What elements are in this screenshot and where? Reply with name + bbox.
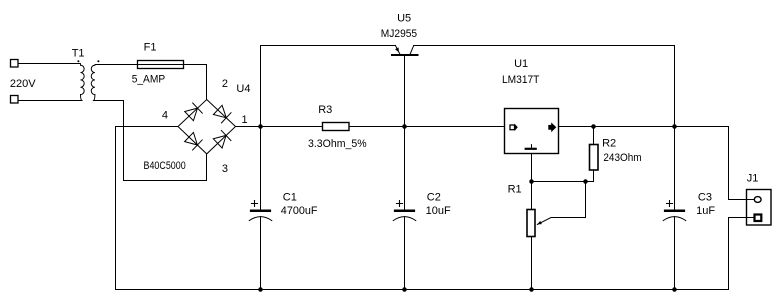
svg-text:T1: T1 (72, 48, 85, 60)
svg-text:F1: F1 (144, 42, 157, 54)
svg-text:1: 1 (242, 114, 248, 126)
svg-text:C1: C1 (283, 192, 297, 204)
svg-text:U4: U4 (236, 83, 250, 95)
svg-text:220V: 220V (10, 78, 36, 90)
svg-text:4700uF: 4700uF (281, 205, 318, 217)
svg-text:4: 4 (162, 110, 168, 122)
svg-text:U1: U1 (514, 58, 528, 70)
svg-text:LM317T: LM317T (502, 74, 540, 86)
svg-text:1uF: 1uF (696, 205, 715, 217)
svg-text:243Ohm: 243Ohm (603, 152, 641, 164)
svg-text:R3: R3 (318, 104, 332, 116)
svg-text:MJ2955: MJ2955 (381, 28, 417, 40)
svg-text:R1: R1 (508, 184, 522, 196)
svg-text:C3: C3 (698, 192, 712, 204)
svg-text:B40C5000: B40C5000 (144, 160, 186, 172)
svg-text:U5: U5 (397, 13, 411, 25)
svg-text:R2: R2 (602, 137, 616, 149)
svg-text:C2: C2 (427, 192, 441, 204)
svg-text:2: 2 (222, 78, 228, 90)
svg-text:3.3Ohm_5%: 3.3Ohm_5% (308, 138, 367, 150)
svg-text:10uF: 10uF (426, 205, 451, 217)
svg-text:J1: J1 (747, 173, 759, 185)
svg-text:5_AMP: 5_AMP (132, 73, 166, 85)
svg-text:3: 3 (222, 163, 228, 175)
